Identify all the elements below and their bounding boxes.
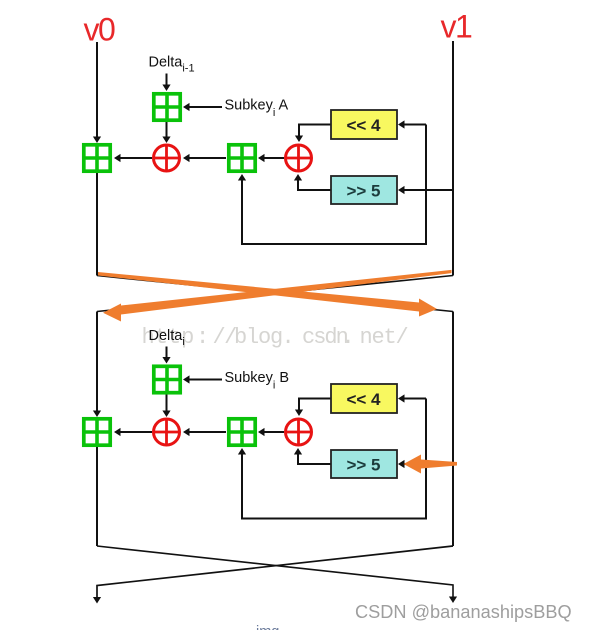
add box B2 xyxy=(229,419,255,445)
wire addbox2 to xor1 round2 xyxy=(186,431,226,433)
svg-text:<< 4: << 4 xyxy=(346,390,381,409)
wire delta arrow to subkey box round2 xyxy=(166,347,168,358)
xor X1 xyxy=(154,145,180,171)
wire loop bottom horizontal round2 xyxy=(241,518,427,520)
svg-text:<< 4: << 4 xyxy=(346,116,381,135)
wire addbox2 to xor1 xyxy=(186,157,226,159)
orange swap arrow to left xyxy=(103,270,452,322)
wire up into addbox2 xyxy=(241,179,243,245)
svg-text:v0: v0 xyxy=(84,12,116,48)
svg-text:>> 5: >> 5 xyxy=(346,182,380,201)
wire cross diagonal right-to-left xyxy=(97,276,453,312)
xor X2 xyxy=(286,145,312,171)
shift left box << 4 round2 xyxy=(331,384,397,413)
wire shl4 output to xor2 top xyxy=(299,125,331,137)
svg-text:img: img xyxy=(256,624,279,630)
wire shl4 input round2 xyxy=(401,398,426,400)
wire subkey box to xor1 xyxy=(166,122,168,137)
wire shl4 output to xor2 top round2 xyxy=(299,399,331,411)
wire v0 below add box xyxy=(96,173,98,276)
shift right box >> 5 xyxy=(331,176,397,204)
wire shr5 output to xor2 bottom round2 xyxy=(298,453,331,464)
wire bottom cross diagonal left-to-right xyxy=(97,546,453,597)
wire right branch vertical xyxy=(425,125,427,246)
add box A2 xyxy=(229,145,255,171)
wire bottom cross diagonal right-to-left xyxy=(97,546,453,597)
orange highlight arrow at shr5 xyxy=(404,455,458,474)
svg-text:Subkeyi B: Subkeyi B xyxy=(225,370,290,392)
wire v0 vertical top xyxy=(96,42,98,138)
wire v0 vertical round2 xyxy=(96,312,98,413)
wire shl4 input xyxy=(401,124,426,126)
wire xor1 to addbox1 xyxy=(117,157,152,159)
wire subkey box to xor1 round2 xyxy=(166,395,168,412)
wire xor2 to addbox2 round2 xyxy=(261,431,284,433)
wire v1 to shr5 input round2 xyxy=(401,463,453,465)
wire shr5 output to xor2 bottom xyxy=(298,179,331,190)
wire subkey label arrow xyxy=(186,106,222,108)
svg-text:>> 5: >> 5 xyxy=(346,456,380,475)
wire xor2 to addbox2 xyxy=(261,157,284,159)
wire v0 below add box round2 xyxy=(96,447,98,546)
xor X3 xyxy=(154,419,180,445)
wire v1 vertical round2 xyxy=(452,312,454,547)
wire delta arrow to subkey box xyxy=(166,74,168,86)
svg-text:Deltai-1: Deltai-1 xyxy=(149,55,195,75)
wire subkey label arrow round2 xyxy=(186,379,222,381)
wire right branch vertical round2 xyxy=(425,399,427,520)
add box subkeyB xyxy=(154,366,180,392)
wire up into addbox2 round2 xyxy=(241,453,243,519)
svg-text:Subkeyi A: Subkeyi A xyxy=(225,98,289,120)
svg-text:v1: v1 xyxy=(441,9,473,45)
shift left box << 4 xyxy=(331,110,397,139)
wire v1 vertical xyxy=(452,41,454,276)
wire xor1 to addbox1 round2 xyxy=(117,431,152,433)
orange swap arrow to right xyxy=(98,272,437,317)
add box subkeyA xyxy=(154,94,180,120)
shift right box >> 5 round2 xyxy=(331,450,397,478)
wire cross diagonal left-to-right xyxy=(97,276,453,312)
xor X4 xyxy=(286,419,312,445)
svg-text:CSDN @bananashipsBBQ: CSDN @bananashipsBBQ xyxy=(355,602,572,622)
wire loop bottom horizontal xyxy=(241,243,427,245)
add box A1 xyxy=(84,145,110,171)
wire v1 to shr5 input xyxy=(401,189,453,191)
add box B1 xyxy=(84,419,110,445)
